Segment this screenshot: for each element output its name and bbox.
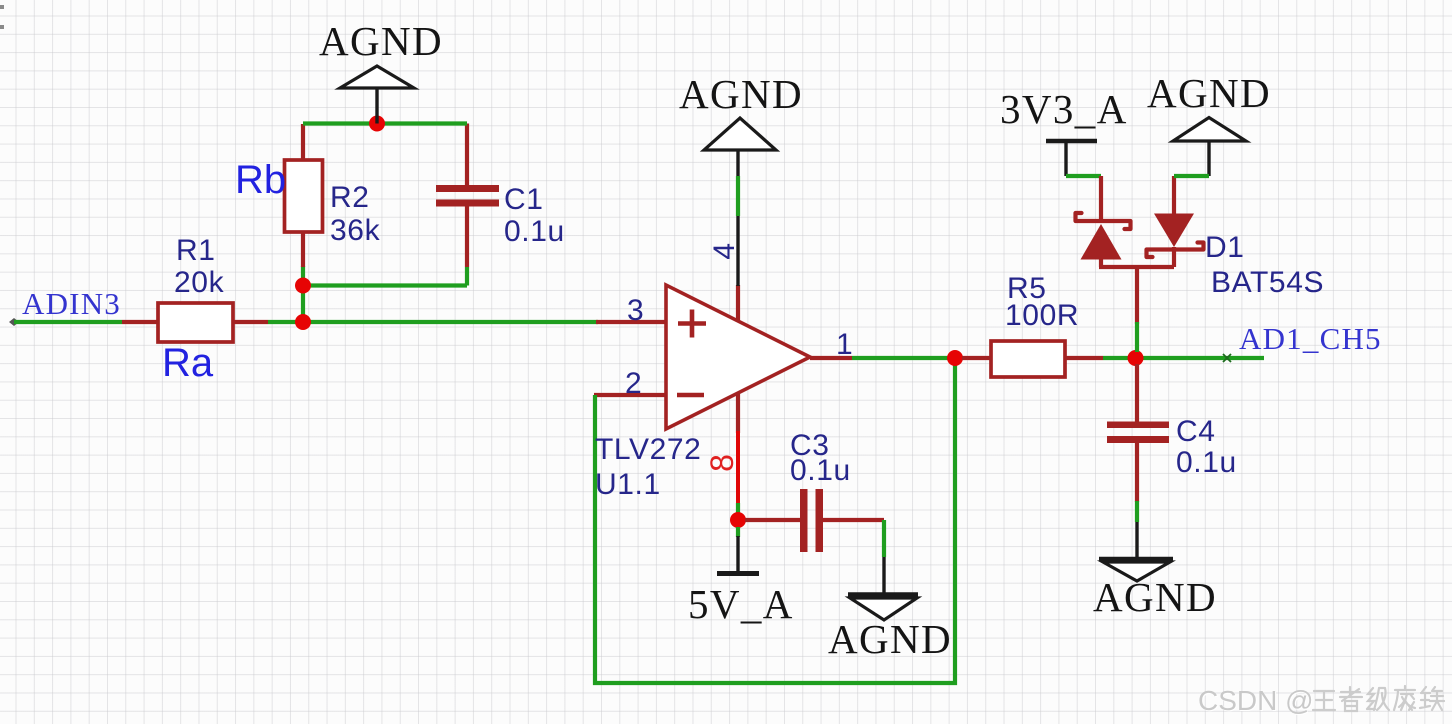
svg-text:4: 4: [708, 242, 741, 259]
svg-text:0.1u: 0.1u: [504, 215, 565, 248]
svg-text:AGND: AGND: [828, 616, 952, 662]
svg-text:TLV272: TLV272: [595, 433, 701, 466]
svg-text:D1: D1: [1205, 231, 1245, 264]
svg-text:0.1u: 0.1u: [790, 454, 851, 487]
svg-text:8: 8: [704, 454, 740, 472]
svg-text:AGND: AGND: [1147, 70, 1271, 116]
svg-text:Ra: Ra: [162, 341, 214, 385]
svg-text:20k: 20k: [174, 266, 225, 299]
svg-text:C1: C1: [504, 183, 544, 216]
svg-text:C4: C4: [1176, 415, 1216, 448]
svg-text:100R: 100R: [1005, 299, 1079, 332]
svg-text:ADIN3: ADIN3: [22, 286, 121, 321]
svg-text:Rb: Rb: [235, 158, 286, 202]
svg-text:3: 3: [627, 294, 644, 327]
svg-text:5V_A: 5V_A: [688, 581, 794, 627]
svg-text:AD1_CH5: AD1_CH5: [1239, 321, 1382, 356]
svg-text:BAT54S: BAT54S: [1211, 266, 1324, 299]
svg-text:AGND: AGND: [1093, 574, 1217, 620]
svg-text:3V3_A: 3V3_A: [1000, 86, 1128, 132]
svg-text:R1: R1: [176, 234, 216, 267]
svg-text:AGND: AGND: [679, 71, 803, 117]
svg-text:AGND: AGND: [319, 18, 443, 64]
svg-text:CSDN @: CSDN @: [1198, 685, 1314, 716]
svg-text:U1.1: U1.1: [595, 468, 661, 501]
svg-text:2: 2: [625, 367, 642, 400]
svg-text:0.1u: 0.1u: [1176, 446, 1237, 479]
svg-text:R2: R2: [330, 181, 370, 214]
svg-text:36k: 36k: [330, 214, 381, 247]
